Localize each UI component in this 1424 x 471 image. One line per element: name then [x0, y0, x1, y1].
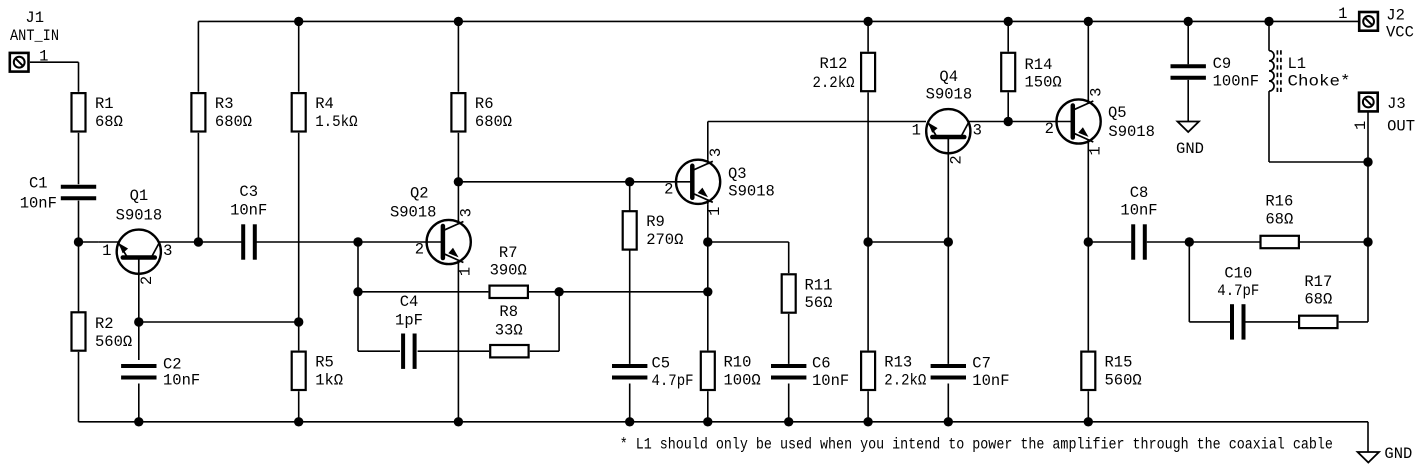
- wire: [298, 391, 300, 422]
- svg-text:68Ω: 68Ω: [95, 113, 123, 131]
- junction: [134, 417, 143, 426]
- wire: [358, 350, 400, 352]
- wire: [197, 133, 199, 242]
- junction R3 bottom: [194, 237, 203, 246]
- svg-text:R15: R15: [1105, 354, 1133, 372]
- resistor R6: [451, 93, 512, 131]
- svg-text:C4: C4: [400, 293, 419, 311]
- wire: [629, 182, 631, 211]
- junction J3 node: [1363, 157, 1372, 166]
- svg-text:Q2: Q2: [410, 184, 429, 202]
- svg-text:C5: C5: [652, 355, 671, 373]
- wire: [629, 250, 631, 364]
- svg-text:3: 3: [707, 148, 725, 157]
- wire: [1268, 91, 1270, 162]
- svg-text:10nF: 10nF: [230, 202, 267, 220]
- resistor R13: [861, 352, 926, 390]
- connector J3: [1359, 93, 1378, 112]
- svg-text:R13: R13: [884, 354, 912, 372]
- svg-text:J1: J1: [25, 9, 44, 27]
- junction: [1084, 17, 1093, 26]
- wire: [867, 92, 869, 242]
- svg-text:R12: R12: [820, 55, 848, 73]
- wire: [968, 121, 1073, 123]
- wire: [788, 384, 790, 422]
- svg-text:C1: C1: [29, 175, 48, 193]
- svg-text:2.2kΩ: 2.2kΩ: [813, 74, 855, 92]
- svg-text:4.7pF: 4.7pF: [652, 372, 694, 390]
- wire: [139, 321, 299, 323]
- svg-text:C6: C6: [812, 355, 831, 373]
- junction R4/R5 node: [294, 317, 303, 326]
- resistor R7: [490, 244, 528, 298]
- svg-text:* L1 should only be used when: * L1 should only be used when you intend…: [620, 436, 1333, 454]
- junction: [863, 17, 872, 26]
- wire: [99, 241, 119, 243]
- junction: [625, 417, 634, 426]
- wire: [1187, 21, 1189, 64]
- wire: [708, 241, 789, 243]
- resistor R3: [191, 93, 252, 131]
- wire: [1367, 422, 1369, 452]
- wire: [707, 391, 709, 422]
- junction R14 bottom: [1004, 117, 1013, 126]
- wire: [947, 384, 949, 422]
- svg-text:68Ω: 68Ω: [1304, 291, 1332, 309]
- wire: [457, 182, 459, 220]
- wire: [457, 265, 459, 422]
- wire: [138, 322, 140, 360]
- junction: [784, 417, 793, 426]
- wire: [357, 242, 359, 351]
- capacitor C9: [1171, 55, 1260, 90]
- junction: [703, 287, 712, 296]
- svg-text:R2: R2: [95, 315, 114, 333]
- svg-text:3: 3: [973, 122, 982, 140]
- connector J1: [10, 53, 29, 72]
- svg-text:C8: C8: [1130, 184, 1149, 202]
- wire: [867, 391, 869, 422]
- wire: [1339, 321, 1368, 323]
- junction: [454, 17, 463, 26]
- svg-text:R6: R6: [475, 95, 494, 113]
- junction output node: [1185, 237, 1194, 246]
- svg-text:270Ω: 270Ω: [646, 231, 683, 249]
- svg-text:S9018: S9018: [926, 86, 973, 104]
- wire: [707, 122, 709, 160]
- svg-text:J2: J2: [1386, 7, 1405, 25]
- wire: [298, 133, 300, 351]
- resistor R10: [701, 352, 761, 390]
- wire: [1007, 92, 1009, 121]
- resistor R11: [782, 274, 833, 312]
- svg-text:S9018: S9018: [390, 204, 437, 222]
- svg-text:3: 3: [163, 242, 172, 260]
- wire: [788, 314, 790, 364]
- wire: [530, 350, 559, 352]
- svg-text:1pF: 1pF: [395, 311, 423, 329]
- svg-text:1: 1: [102, 242, 111, 260]
- wire: [947, 156, 949, 243]
- wire: [78, 352, 80, 422]
- resistor R16: [1261, 193, 1299, 249]
- connector J3 labels: [1352, 95, 1415, 135]
- capacitor C8: [1120, 184, 1157, 260]
- junction feedback node B: [554, 287, 563, 296]
- svg-text:100Ω: 100Ω: [724, 371, 761, 389]
- junction: [294, 417, 303, 426]
- svg-text:Q4: Q4: [939, 68, 958, 86]
- wire: [1147, 241, 1260, 243]
- svg-text:R1: R1: [95, 95, 114, 113]
- transistor Q5: [1045, 88, 1155, 156]
- junction: [703, 417, 712, 426]
- capacitor C6: [771, 355, 849, 390]
- svg-text:C7: C7: [972, 355, 991, 373]
- svg-text:10nF: 10nF: [1120, 202, 1157, 220]
- transistor Q1: [102, 187, 172, 285]
- svg-text:33Ω: 33Ω: [495, 321, 523, 339]
- svg-text:150Ω: 150Ω: [1025, 74, 1062, 92]
- wire: [78, 62, 80, 92]
- svg-text:10nF: 10nF: [972, 372, 1009, 390]
- wire: [138, 384, 140, 422]
- svg-text:R11: R11: [805, 276, 833, 294]
- note about L1: [620, 436, 1333, 454]
- wire: [1088, 241, 1131, 243]
- svg-text:R8: R8: [499, 303, 518, 321]
- wire: [1087, 144, 1089, 242]
- wire: [1087, 21, 1089, 99]
- resistor R12: [813, 53, 876, 92]
- svg-text:GND: GND: [1384, 445, 1412, 463]
- capacitor C10: [1217, 264, 1259, 339]
- svg-text:S9018: S9018: [1108, 123, 1155, 141]
- junction: [1004, 17, 1013, 26]
- svg-text:L1: L1: [1288, 55, 1307, 73]
- wire: [707, 204, 709, 350]
- wire: [867, 21, 869, 51]
- resistor R8: [490, 303, 528, 357]
- wire: [79, 421, 1369, 423]
- wire: [559, 291, 708, 293]
- connector J2 labels: [1338, 5, 1414, 41]
- wire: [1367, 113, 1369, 322]
- wire: [1299, 241, 1368, 243]
- junction: [1363, 237, 1372, 246]
- resistor R14: [1001, 53, 1062, 92]
- svg-text:R7: R7: [499, 244, 518, 262]
- svg-text:R4: R4: [315, 95, 334, 113]
- svg-text:ANT_IN: ANT_IN: [10, 27, 59, 45]
- svg-text:Q3: Q3: [728, 165, 747, 183]
- wire: [1188, 242, 1190, 322]
- wire: [78, 133, 80, 184]
- transistor Q4: [912, 68, 982, 164]
- svg-text:560Ω: 560Ω: [95, 333, 132, 351]
- svg-text:GND: GND: [1176, 140, 1204, 158]
- GND label bottom right: [1384, 445, 1412, 463]
- capacitor C5: [612, 355, 694, 390]
- wire: [138, 276, 140, 322]
- transistor Q3: [664, 148, 775, 216]
- capacitor C4: [395, 293, 423, 369]
- svg-text:56Ω: 56Ω: [805, 294, 833, 312]
- junction: [294, 17, 303, 26]
- svg-text:10nF: 10nF: [812, 372, 849, 390]
- svg-text:VCC: VCC: [1386, 23, 1414, 41]
- svg-text:10nF: 10nF: [20, 194, 57, 212]
- wire: [358, 291, 488, 293]
- svg-text:C10: C10: [1224, 264, 1252, 282]
- junction Q4 base node: [863, 237, 872, 246]
- wire: [30, 61, 79, 63]
- svg-text:3: 3: [458, 208, 476, 217]
- svg-text:3: 3: [1088, 88, 1106, 97]
- capacitor C3: [230, 183, 267, 260]
- junction feedback node A: [353, 287, 362, 296]
- svg-text:R9: R9: [646, 213, 665, 231]
- svg-text:1kΩ: 1kΩ: [315, 371, 343, 389]
- junction R9 top: [625, 177, 634, 186]
- svg-text:1.5kΩ: 1.5kΩ: [315, 113, 358, 131]
- junction input node: [74, 237, 83, 246]
- svg-text:R3: R3: [215, 95, 234, 113]
- svg-text:Q1: Q1: [130, 187, 149, 205]
- GND label at C9: [1176, 140, 1204, 158]
- wire: [1007, 21, 1009, 51]
- junction R6 bottom: [454, 177, 463, 186]
- resistor R17: [1299, 273, 1337, 328]
- junction Q5 emitter node: [1084, 237, 1093, 246]
- transistor Q2: [390, 184, 476, 276]
- wire: [1269, 161, 1368, 163]
- resistor R15: [1081, 352, 1141, 390]
- wire: [1189, 321, 1232, 323]
- wire: [159, 241, 244, 243]
- capacitor C2: [121, 355, 200, 389]
- capacitor C1: [20, 175, 97, 213]
- svg-text:S9018: S9018: [728, 183, 775, 201]
- svg-text:680Ω: 680Ω: [475, 113, 512, 131]
- svg-text:Choke*: Choke*: [1288, 73, 1351, 91]
- svg-text:560Ω: 560Ω: [1105, 371, 1142, 389]
- svg-text:R10: R10: [724, 354, 752, 372]
- svg-text:680Ω: 680Ω: [215, 113, 252, 131]
- svg-text:2: 2: [138, 276, 156, 285]
- resistor R1: [72, 93, 123, 131]
- svg-text:R14: R14: [1025, 56, 1053, 74]
- junction: [454, 417, 463, 426]
- svg-text:OUT: OUT: [1387, 118, 1415, 136]
- inductor L1: [1269, 50, 1351, 92]
- wire: [457, 133, 459, 182]
- capacitor C7: [931, 355, 1010, 390]
- svg-text:J3: J3: [1387, 95, 1406, 113]
- junction: [1184, 17, 1193, 26]
- svg-text:10nF: 10nF: [163, 372, 200, 390]
- svg-text:Q5: Q5: [1108, 104, 1127, 122]
- wire: [197, 21, 199, 91]
- svg-text:100nF: 100nF: [1213, 72, 1260, 90]
- wire: [529, 291, 559, 293]
- wire: [867, 242, 869, 350]
- wire: [947, 242, 949, 364]
- wire: [458, 181, 692, 183]
- resistor R5: [292, 352, 343, 390]
- svg-text:390Ω: 390Ω: [490, 262, 527, 280]
- svg-text:R5: R5: [315, 354, 334, 372]
- connector J2: [1359, 12, 1378, 31]
- junction Q2 base node: [353, 237, 362, 246]
- wire: [1087, 391, 1089, 422]
- svg-text:1: 1: [912, 122, 921, 140]
- wire: [78, 201, 80, 242]
- junction Q1 base bias: [134, 317, 143, 326]
- svg-text:2: 2: [664, 180, 673, 198]
- svg-text:C9: C9: [1213, 55, 1232, 73]
- wire: [298, 21, 300, 91]
- wire: [629, 384, 631, 422]
- wire: [255, 241, 443, 243]
- junction: [863, 417, 872, 426]
- junction: [944, 417, 953, 426]
- svg-text:C3: C3: [239, 183, 258, 201]
- svg-text:68Ω: 68Ω: [1265, 211, 1293, 229]
- svg-text:4.7pF: 4.7pF: [1217, 282, 1259, 300]
- wire: [788, 242, 790, 273]
- svg-text:2: 2: [415, 241, 424, 259]
- svg-text:2.2kΩ: 2.2kΩ: [884, 371, 926, 389]
- resistor R9: [623, 211, 684, 249]
- svg-text:R16: R16: [1265, 193, 1293, 211]
- wire: [78, 242, 80, 311]
- wire: [1268, 21, 1270, 50]
- resistor R2: [72, 312, 133, 351]
- ground at rail end: [1358, 452, 1379, 463]
- wire: [1244, 321, 1299, 323]
- wire: [558, 292, 560, 351]
- resistor R4: [292, 93, 358, 131]
- junction: [1264, 17, 1273, 26]
- wire: [1187, 80, 1189, 122]
- wire: [868, 241, 948, 243]
- wire: [198, 20, 1358, 22]
- junction Q3 emitter node: [703, 237, 712, 246]
- junction: [1084, 417, 1093, 426]
- junction: [944, 237, 953, 246]
- wire: [418, 350, 489, 352]
- connector J1 labels: [10, 9, 59, 66]
- wire: [708, 121, 926, 123]
- wire: [79, 241, 99, 243]
- wire: [1087, 242, 1089, 350]
- svg-text:R17: R17: [1304, 273, 1332, 291]
- svg-text:1: 1: [1338, 5, 1347, 23]
- svg-text:S9018: S9018: [116, 206, 163, 224]
- svg-text:2: 2: [948, 155, 966, 164]
- wire: [457, 21, 459, 91]
- ground below C9: [1178, 122, 1199, 133]
- svg-text:1: 1: [1352, 121, 1370, 130]
- svg-text:2: 2: [1045, 120, 1054, 138]
